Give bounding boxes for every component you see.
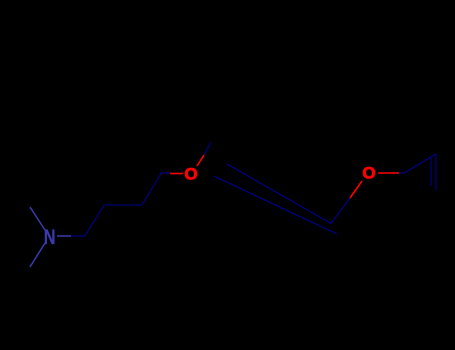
wire: central long bond upper line: [227, 164, 331, 224]
wire: O1-CH3 navy half: [204, 142, 211, 155]
svg-text:O: O: [362, 164, 375, 183]
wire: C6=C7 double bond inner: [430, 158, 432, 186]
wire: central long bond lower line: [214, 176, 337, 234]
wire: O2-C5 bond red, right: [378, 172, 399, 174]
wire: O1-CH3 red half: [197, 155, 204, 166]
wire: C2-C3 horizontal: [104, 204, 142, 206]
wire: C5-C6 diagonal: [404, 154, 436, 173]
wire: connector to O2 carbon: [331, 198, 350, 224]
wire: C-O2 bond red, down-left: [350, 181, 362, 198]
svg-text:N: N: [44, 226, 56, 249]
wire: C3-C4 diagonal: [142, 172, 162, 205]
wire: N-CH3 bond up-left: [30, 207, 45, 230]
wire: N-CH3 bond down-left: [30, 243, 45, 267]
wire: C4-O1 bond red half: [170, 173, 183, 175]
svg-text:O: O: [184, 165, 197, 184]
wire: C4-O1 bond navy half: [162, 172, 172, 174]
wire: C1-C2 diagonal: [85, 205, 104, 236]
wire: N-C1 bond right, navy half: [71, 235, 85, 237]
wire: O2-C5 navy part: [399, 172, 404, 174]
wire: N-C1 bond right, blue half: [57, 235, 71, 237]
wire: C6=C7 double bond outer: [435, 154, 437, 190]
